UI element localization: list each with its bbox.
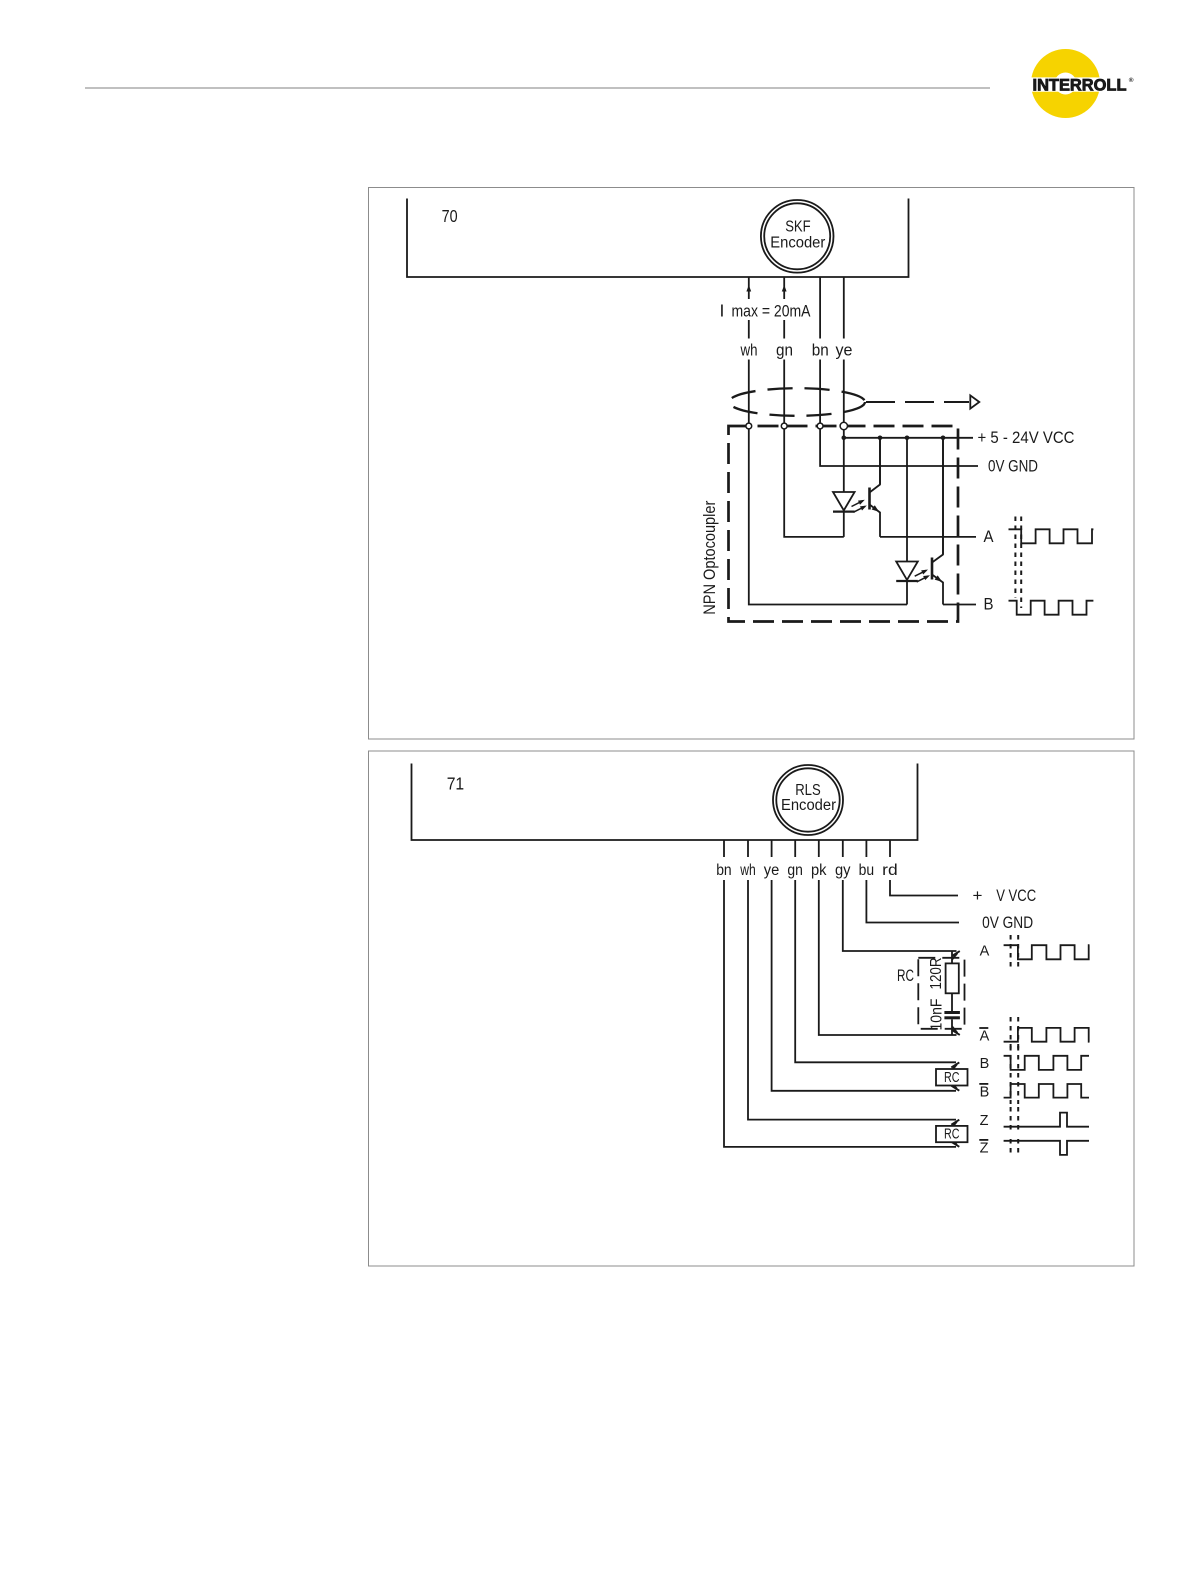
svg-text:B: B (984, 595, 994, 614)
svg-text:B: B (980, 1084, 990, 1100)
svg-text:A: A (980, 944, 990, 960)
svg-text:SKF: SKF (785, 219, 811, 236)
svg-text:Encoder: Encoder (781, 797, 836, 814)
svg-text:gn: gn (776, 342, 793, 360)
svg-text:Z: Z (980, 1113, 989, 1129)
svg-text:ye: ye (836, 342, 853, 360)
svg-text:A: A (980, 1029, 990, 1045)
svg-text:V VCC: V VCC (996, 886, 1036, 905)
svg-text:wh: wh (740, 342, 758, 360)
svg-text:ye: ye (764, 862, 780, 879)
svg-text:wh: wh (739, 862, 755, 879)
svg-text:bu: bu (859, 862, 875, 879)
svg-text:bn: bn (716, 862, 732, 879)
svg-text:Z: Z (980, 1140, 989, 1156)
svg-text:NPN Optocoupler: NPN Optocoupler (701, 500, 719, 614)
svg-text:RC: RC (944, 1069, 960, 1086)
svg-text:gy: gy (835, 862, 851, 879)
svg-text:70: 70 (442, 206, 458, 226)
svg-text:0V GND: 0V GND (988, 457, 1038, 476)
svg-text:RC: RC (897, 967, 914, 985)
svg-text:0V GND: 0V GND (982, 913, 1033, 932)
svg-text:rd: rd (882, 862, 898, 879)
svg-text:+ 5 - 24V VCC: + 5 - 24V VCC (978, 428, 1075, 447)
svg-text:10nF: 10nF (929, 998, 946, 1030)
svg-text:INTERROLL: INTERROLL (1033, 77, 1127, 95)
svg-text:71: 71 (447, 774, 465, 794)
svg-text:Encoder: Encoder (770, 235, 825, 252)
svg-text:®: ® (1129, 76, 1134, 84)
svg-text:+: + (973, 886, 983, 905)
svg-text:I: I (720, 301, 725, 321)
svg-text:A: A (984, 527, 995, 546)
svg-text:pk: pk (811, 862, 827, 879)
svg-text:gn: gn (787, 862, 803, 879)
svg-text:120R: 120R (928, 958, 945, 990)
svg-text:max = 20mA: max = 20mA (732, 303, 811, 321)
svg-text:RC: RC (944, 1126, 960, 1143)
svg-text:bn: bn (812, 342, 829, 360)
svg-text:B: B (980, 1056, 990, 1072)
